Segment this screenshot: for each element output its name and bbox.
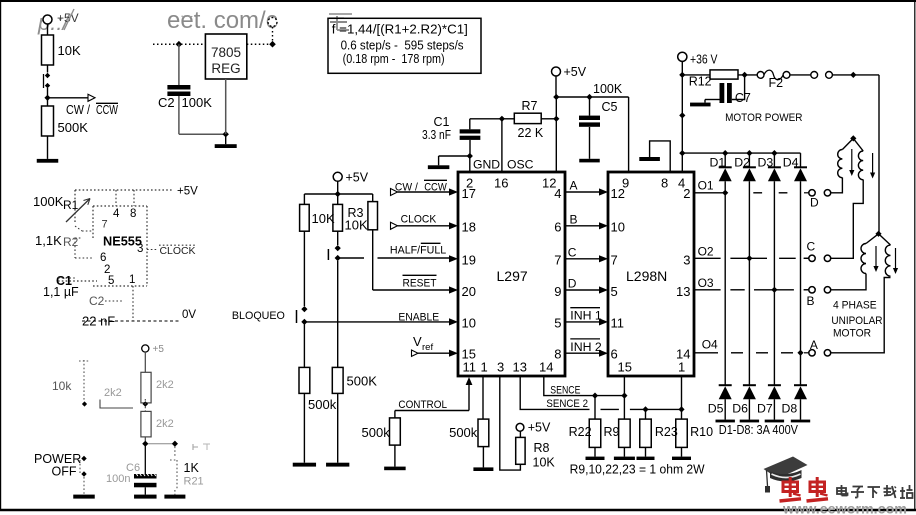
svg-text:1,1 µF: 1,1 µF	[43, 285, 79, 299]
svg-text:+5V: +5V	[528, 421, 551, 435]
svg-text:ref: ref	[422, 342, 433, 353]
svg-text:F2: F2	[769, 76, 784, 90]
svg-text:5: 5	[554, 316, 561, 331]
svg-text:5: 5	[108, 275, 114, 287]
svg-text:D5: D5	[708, 402, 724, 416]
svg-text:8: 8	[554, 347, 561, 362]
svg-text:R23: R23	[655, 425, 678, 439]
svg-text:11: 11	[611, 316, 625, 331]
svg-text:4: 4	[113, 208, 120, 220]
svg-text:5: 5	[611, 284, 618, 299]
svg-text:+5V: +5V	[346, 171, 369, 185]
svg-text:3: 3	[683, 253, 690, 268]
svg-text:C: C	[568, 245, 577, 259]
svg-text:CW /: CW /	[66, 103, 90, 117]
svg-text:10: 10	[462, 316, 476, 331]
svg-text:D8: D8	[782, 402, 798, 416]
svg-text:R21: R21	[184, 476, 204, 488]
svg-text:7: 7	[102, 219, 108, 231]
svg-text:7805: 7805	[211, 45, 241, 60]
svg-text:O1: O1	[698, 179, 714, 193]
svg-text:2k2: 2k2	[104, 387, 122, 399]
svg-text:1,1K: 1,1K	[35, 233, 62, 248]
svg-text:OFF: OFF	[52, 465, 77, 479]
svg-text:R10: R10	[690, 425, 713, 439]
svg-text:··-·: ··-·	[180, 8, 197, 23]
svg-text:CCW: CCW	[424, 182, 447, 194]
svg-text:HALF/FULL: HALF/FULL	[390, 245, 446, 257]
svg-text:SENCE: SENCE	[550, 385, 580, 397]
svg-text:18: 18	[462, 220, 476, 235]
svg-text:R9: R9	[604, 425, 620, 439]
svg-text:22 nF: 22 nF	[82, 314, 115, 329]
svg-text:19: 19	[462, 253, 476, 268]
svg-text:13: 13	[513, 360, 527, 375]
svg-text:14: 14	[539, 360, 553, 375]
svg-text:A: A	[570, 179, 578, 193]
svg-text:7: 7	[554, 253, 561, 268]
svg-text:4: 4	[554, 186, 561, 201]
svg-text:CW /: CW /	[395, 182, 419, 194]
svg-text:MOTOR POWER: MOTOR POWER	[725, 112, 802, 124]
svg-text:R8: R8	[534, 441, 550, 455]
svg-text:www.eeworm.com: www.eeworm.com	[782, 502, 907, 515]
svg-text:R12: R12	[689, 75, 712, 89]
svg-text:UNIPOLAR: UNIPOLAR	[831, 315, 882, 327]
svg-text:R1: R1	[63, 198, 79, 212]
svg-text:A: A	[810, 338, 818, 352]
svg-text:CLOCK: CLOCK	[160, 245, 196, 257]
svg-text:D4: D4	[783, 156, 799, 170]
svg-text:100K: 100K	[593, 82, 623, 96]
svg-text:12: 12	[611, 186, 625, 201]
svg-text:D2: D2	[734, 156, 750, 170]
svg-text:1: 1	[129, 274, 135, 286]
svg-text:R22: R22	[569, 425, 592, 439]
svg-text:MOTOR: MOTOR	[833, 327, 871, 339]
svg-text:3.3 nF: 3.3 nF	[422, 128, 451, 142]
svg-text:0.6 step/s - 595 steps/s: 0.6 step/s - 595 steps/s	[341, 39, 464, 53]
svg-text:16: 16	[494, 176, 508, 191]
svg-text:R9,10,22,23 = 1 ohm 2W: R9,10,22,23 = 1 ohm 2W	[570, 461, 706, 476]
svg-text:INH 2: INH 2	[570, 340, 602, 354]
svg-text:10K: 10K	[345, 218, 368, 233]
svg-text:22 K: 22 K	[518, 126, 544, 140]
svg-text:4 PHASE: 4 PHASE	[833, 300, 877, 312]
svg-text:2k2: 2k2	[156, 418, 174, 430]
svg-text:C1: C1	[434, 115, 450, 129]
svg-text:CCW: CCW	[96, 103, 118, 117]
svg-text:10: 10	[611, 220, 625, 235]
svg-text:f =1,44/[(R1+2.R2)*C1]: f =1,44/[(R1+2.R2)*C1]	[332, 23, 468, 37]
svg-text:V: V	[413, 334, 422, 349]
svg-text:10K: 10K	[58, 43, 81, 58]
svg-text:R7: R7	[522, 99, 538, 113]
svg-text:+36 V: +36 V	[690, 53, 718, 67]
svg-text:SENCE 2: SENCE 2	[546, 398, 588, 410]
svg-text:C2: C2	[89, 294, 105, 308]
svg-text:CLOCK: CLOCK	[401, 214, 437, 226]
svg-text:C5: C5	[602, 100, 618, 114]
svg-text:17: 17	[462, 186, 476, 201]
svg-text:9: 9	[554, 284, 561, 299]
svg-text:REG: REG	[211, 61, 240, 76]
svg-text:10K: 10K	[533, 456, 556, 470]
svg-text:100K: 100K	[33, 194, 64, 209]
svg-text:D: D	[810, 196, 819, 210]
svg-text:13: 13	[676, 284, 690, 299]
svg-text:1K: 1K	[184, 461, 200, 475]
svg-text:D6: D6	[732, 402, 748, 416]
svg-text:2k2: 2k2	[156, 379, 174, 391]
svg-text:D1-D8: 3A 400V: D1-D8: 3A 400V	[719, 423, 799, 437]
svg-text:RESET: RESET	[403, 278, 437, 290]
svg-text:500k: 500k	[362, 425, 391, 440]
svg-text:OSC: OSC	[507, 158, 534, 172]
svg-text:100K: 100K	[182, 95, 213, 110]
svg-text:3: 3	[497, 360, 504, 375]
svg-text:CONTROL: CONTROL	[398, 399, 447, 411]
svg-text:O3: O3	[698, 276, 714, 290]
svg-text:+5V: +5V	[177, 186, 198, 198]
svg-text:L297: L297	[497, 268, 528, 284]
svg-text:GND: GND	[473, 158, 500, 172]
svg-text:INH 1: INH 1	[570, 309, 602, 323]
svg-text:D7: D7	[757, 402, 773, 416]
svg-text:0V: 0V	[182, 309, 196, 321]
svg-text:R2: R2	[63, 235, 79, 249]
svg-text:D1: D1	[710, 156, 726, 170]
svg-text:1: 1	[481, 360, 488, 375]
svg-text:10K: 10K	[312, 211, 335, 226]
svg-text:C2: C2	[158, 95, 175, 110]
svg-text:500K: 500K	[347, 374, 378, 389]
svg-text:10k: 10k	[52, 379, 72, 393]
svg-text:BLOQUEO: BLOQUEO	[232, 310, 285, 322]
svg-text:1: 1	[678, 360, 685, 375]
svg-text:D3: D3	[758, 156, 774, 170]
svg-text:20: 20	[462, 284, 476, 299]
svg-text:11: 11	[463, 360, 477, 375]
svg-text:7: 7	[611, 253, 618, 268]
svg-text:B: B	[570, 212, 578, 226]
svg-text:ENABLE: ENABLE	[398, 311, 439, 323]
svg-text:C: C	[807, 240, 816, 254]
svg-text:100n: 100n	[106, 473, 130, 485]
svg-text:500K: 500K	[58, 120, 89, 135]
svg-text:(0.18 rpm - 178 rpm): (0.18 rpm - 178 rpm)	[343, 52, 445, 66]
svg-text:2: 2	[683, 186, 690, 201]
svg-text:O4: O4	[702, 338, 718, 352]
svg-text:3: 3	[137, 243, 143, 255]
svg-text:L298N: L298N	[626, 268, 667, 284]
svg-text:D: D	[568, 277, 577, 291]
svg-text:8: 8	[130, 208, 136, 220]
svg-text:+5: +5	[153, 344, 165, 355]
svg-text:B: B	[807, 294, 815, 308]
svg-text:15: 15	[618, 360, 632, 375]
svg-text:500k: 500k	[449, 425, 478, 440]
svg-text:6: 6	[100, 252, 106, 264]
svg-text:+5V: +5V	[564, 65, 587, 79]
svg-text:6: 6	[554, 220, 561, 235]
svg-text:O2: O2	[698, 245, 714, 259]
svg-text:500k: 500k	[308, 397, 337, 412]
svg-text:C7: C7	[735, 91, 751, 105]
svg-text:8: 8	[661, 176, 668, 191]
